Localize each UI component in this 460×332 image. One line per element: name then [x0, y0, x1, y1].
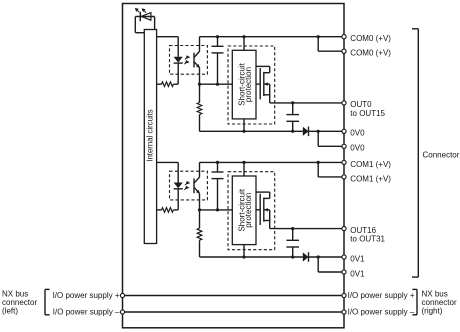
transistor Q2 MOSFET	[256, 192, 270, 229]
wire OUT16 output line	[270, 228, 344, 230]
junction on COM0 rail at terminal stub	[317, 35, 320, 38]
label Connector	[423, 151, 460, 160]
short-circuit protection U1 dashed box	[228, 46, 275, 124]
short-circuit protection U1 label	[237, 62, 253, 105]
wire COM0 rail	[200, 36, 345, 38]
wire protection block bottom tap	[243, 245, 245, 257]
diode D1	[303, 127, 309, 137]
svg-text:to OUT15: to OUT15	[350, 109, 385, 118]
wire I/O power supply + line	[123, 295, 345, 297]
short-circuit protection U2 block	[232, 176, 256, 245]
capacitor C1a	[212, 37, 224, 84]
label 0V0 lower	[350, 144, 365, 153]
indicator LED light arrows	[135, 8, 146, 13]
terminal I/O power supply - left	[120, 310, 124, 314]
junction on COM0 rail at capacitor	[216, 35, 219, 38]
resistor R2a	[157, 188, 179, 212]
terminal 0V1 lower	[342, 270, 346, 274]
short-circuit protection U2 dashed box	[228, 172, 275, 250]
svg-text:Connector: Connector	[423, 151, 460, 160]
label I/O power supply - right	[348, 308, 415, 317]
junction on output line	[291, 227, 294, 230]
wire protection block top tap	[243, 37, 245, 51]
terminal COM1 (+V) lower	[342, 175, 346, 179]
photocoupler PC2 dashed box	[170, 171, 208, 200]
capacitor C2b	[286, 229, 299, 257]
wire stub to second 0V1 terminal	[318, 257, 344, 272]
label COM1 (+V) upper	[350, 160, 391, 169]
label I/O power supply - left	[53, 308, 120, 317]
svg-text:I/O power supply –: I/O power supply –	[53, 308, 120, 317]
terminal 0V1 upper	[342, 255, 346, 259]
wire protection block bottom tap	[243, 119, 245, 131]
junction on output line	[291, 101, 294, 104]
photocoupler PC2 phototransistor	[194, 162, 200, 210]
wire COM1 rail	[200, 161, 345, 163]
terminal I/O power supply + left	[120, 293, 124, 297]
svg-text:I/O power supply –: I/O power supply –	[348, 308, 415, 317]
junction at capacitor C2a tap	[216, 208, 219, 211]
junction on 0V1 rail at capacitor	[291, 255, 294, 258]
internal circuits block	[144, 30, 156, 244]
svg-text:I/O power supply +: I/O power supply +	[348, 291, 415, 300]
terminal OUT0	[342, 101, 346, 105]
terminal OUT16	[342, 227, 346, 231]
svg-text:OUT0: OUT0	[350, 100, 372, 109]
resistor R1a	[157, 63, 179, 87]
label I/O power supply + left	[53, 291, 120, 300]
junction on 0V1 rail at terminal stub	[317, 255, 320, 258]
connector bracket	[412, 29, 418, 277]
junction at emitter node	[198, 208, 201, 211]
resistor R1b	[197, 84, 202, 131]
internal circuits label	[145, 109, 154, 162]
label NX bus connector (right)	[422, 290, 457, 316]
svg-text:0V1: 0V1	[350, 254, 365, 263]
junction on 0V1 rail at protection block	[242, 255, 245, 258]
svg-text:OUT16: OUT16	[350, 226, 376, 235]
junction on 0V0 rail at capacitor	[291, 130, 294, 133]
resistor R2b	[197, 210, 202, 257]
capacitor C2a	[212, 162, 224, 210]
terminal COM1 (+V) upper	[342, 160, 346, 164]
terminal COM0 (+V) upper	[342, 35, 346, 39]
label COM1 (+V) lower	[350, 174, 391, 183]
main unit outline box	[123, 4, 345, 328]
indicator LED D1	[140, 12, 151, 21]
wire I/O power supply - line	[123, 311, 345, 313]
svg-text:0V1: 0V1	[350, 269, 365, 278]
NX bus left bracket	[45, 289, 50, 314]
NX bus right bracket	[412, 289, 417, 314]
photocoupler PC1 LED	[174, 57, 183, 63]
short-circuit protection U1 block	[232, 50, 256, 119]
wire 0V0 rail	[200, 130, 345, 132]
label COM0 (+V) upper	[350, 34, 391, 43]
wire emitter to protection block	[200, 209, 233, 211]
wire protection block top tap	[243, 162, 245, 176]
svg-text:COM1 (+V): COM1 (+V)	[350, 160, 391, 169]
short-circuit protection U2 label	[237, 188, 253, 231]
wire photocoupler LED anode PC2	[157, 162, 179, 182]
terminal I/O power supply + right	[342, 293, 346, 297]
junction on COM1 rail at protection block	[242, 161, 245, 164]
wire 0V1 rail	[200, 256, 345, 258]
svg-text:COM1 (+V): COM1 (+V)	[350, 174, 391, 183]
label 0V0 upper	[350, 129, 365, 138]
wire indicator LED loop	[135, 17, 154, 33]
svg-text:COM0 (+V): COM0 (+V)	[350, 34, 391, 43]
junction at capacitor C1a tap	[216, 83, 219, 86]
label OUT16	[350, 226, 385, 244]
junction on COM0 rail at protection block	[242, 35, 245, 38]
junction on COM1 rail at terminal stub	[317, 161, 320, 164]
svg-text:I/O power supply +: I/O power supply +	[53, 291, 120, 300]
label OUT0	[350, 100, 385, 118]
transistor Q1 MOSFET	[256, 66, 270, 103]
photocoupler PC1 dashed box	[170, 46, 208, 75]
label COM0 (+V) lower	[350, 49, 391, 58]
svg-text:to OUT31: to OUT31	[350, 235, 385, 244]
terminal I/O power supply - right	[342, 310, 346, 314]
photocoupler PC1 light arrows	[184, 55, 190, 64]
wire photocoupler LED anode PC1	[157, 37, 179, 57]
photocoupler PC1 phototransistor	[194, 37, 200, 84]
junction on 0V0 rail at terminal stub	[317, 130, 320, 133]
svg-text:0V0: 0V0	[350, 144, 365, 153]
junction on COM1 rail at capacitor	[216, 161, 219, 164]
diode D2	[303, 252, 309, 262]
photocoupler PC2 LED	[174, 183, 183, 189]
label I/O power supply + right	[348, 291, 415, 300]
wire stub to second COM0 terminal	[318, 37, 344, 52]
label 0V1 upper	[350, 254, 365, 263]
junction at emitter node	[198, 83, 201, 86]
label NX bus connector (left)	[2, 290, 37, 316]
terminal COM0 (+V) lower	[342, 49, 346, 53]
svg-text:protection: protection	[244, 193, 253, 228]
photocoupler PC2 light arrows	[184, 181, 190, 190]
svg-text:Internal circuits: Internal circuits	[145, 109, 154, 162]
svg-text:0V0: 0V0	[350, 129, 365, 138]
terminal 0V0 lower	[342, 144, 346, 148]
svg-text:protection: protection	[244, 67, 253, 102]
wire stub to second COM1 terminal	[318, 162, 344, 177]
label 0V1 lower	[350, 269, 365, 278]
junction on 0V0 rail at protection block	[242, 130, 245, 133]
wire stub to second 0V0 terminal	[318, 131, 344, 146]
svg-text:(left): (left)	[2, 307, 18, 316]
svg-text:COM0 (+V): COM0 (+V)	[350, 49, 391, 58]
svg-text:(right): (right)	[422, 307, 443, 316]
terminal 0V0 upper	[342, 129, 346, 133]
wire emitter to protection block	[200, 83, 233, 85]
wire OUT0 output line	[270, 102, 344, 104]
capacitor C1b	[286, 103, 299, 131]
